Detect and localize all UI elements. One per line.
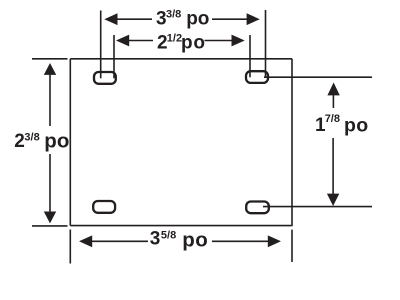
dimension 2-1/2 left shaft [128,40,154,42]
dimension 2-1/2 right arrowhead [232,35,245,47]
extension line top for 2-1/2 right [249,35,251,77]
slot top-left [94,72,116,84]
dimension 1-7/8 upper shaft [332,94,334,108]
dimension 1-7/8 lower shaft [332,138,334,195]
dimension 3-3/8 right arrowhead [247,13,260,25]
dimension 2-3/8 upper shaft [49,74,51,127]
extension line top for 2-1/2 left [113,35,115,78]
dimension 3-5/8 right shaft [212,240,270,242]
dimension 3-3/8 left arrowhead [104,13,117,25]
dimension 1-7/8 up arrowhead [327,83,339,96]
dimension 2-1/2 left arrowhead [116,35,129,47]
plate top edge [70,58,292,60]
dimension 2-3/8 down arrowhead [44,212,56,224]
dimension 2-3/8 lower shaft [49,154,51,213]
extension line below plate right [291,230,293,262]
dimension 2-3/8 up arrowhead [44,63,56,75]
plate right edge [291,59,293,226]
dimension 3-3/8 right shaft [212,18,248,20]
svg-text:21/2po: 21/2po [157,32,206,53]
dimension 3-5/8 left shaft [91,240,148,242]
dimension 1-7/8 down arrowhead [327,194,339,206]
dimension 3-5/8 left arrowhead [79,235,92,247]
slot bottom-left [93,201,115,213]
extension line top for 3-3/8 right [265,10,267,77]
extension line right upper for 1-7/8 [264,76,372,78]
extension line top for 3-3/8 left [100,11,102,79]
dimension 2-1/2 right shaft [205,40,234,42]
plate left edge [69,59,71,226]
slot top-right [246,71,268,83]
plate bottom edge [70,225,291,227]
slot bottom-right [246,202,269,214]
extension line below plate left [69,230,71,264]
dimension 3-5/8 right arrowhead [268,235,281,247]
extension line right lower for 1-7/8 [263,206,372,208]
extension line left of plate bottom [32,225,68,227]
extension line left of plate top [32,58,68,60]
dimension 3-3/8 left shaft [116,18,152,20]
